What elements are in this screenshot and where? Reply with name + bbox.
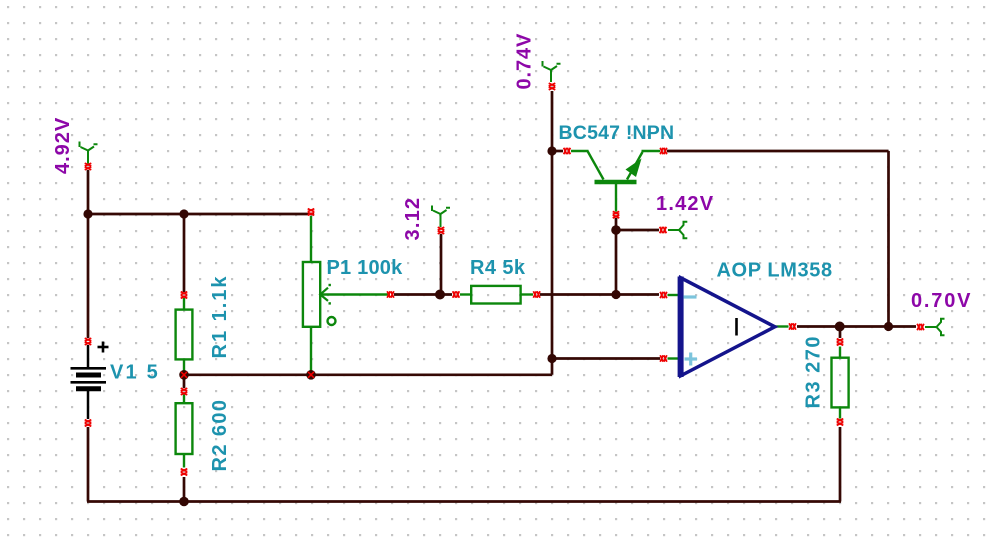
svg-text:4.92V: 4.92V xyxy=(52,117,74,174)
svg-text:R1 1.1k: R1 1.1k xyxy=(209,274,231,358)
svg-text:R2 600: R2 600 xyxy=(209,399,231,472)
svg-text:AOP LM358: AOP LM358 xyxy=(717,260,833,282)
svg-text:R4 5k: R4 5k xyxy=(470,257,526,279)
svg-text:P1 100k: P1 100k xyxy=(327,257,404,279)
svg-text:R3 270: R3 270 xyxy=(803,335,825,409)
svg-text:3.12: 3.12 xyxy=(402,197,424,241)
svg-text:V1 5: V1 5 xyxy=(110,362,160,384)
svg-text:0.70V: 0.70V xyxy=(911,290,972,312)
svg-text:1.42V: 1.42V xyxy=(656,193,714,215)
svg-text:0.74V: 0.74V xyxy=(514,33,536,90)
svg-text:BC547 !NPN: BC547 !NPN xyxy=(559,122,675,144)
